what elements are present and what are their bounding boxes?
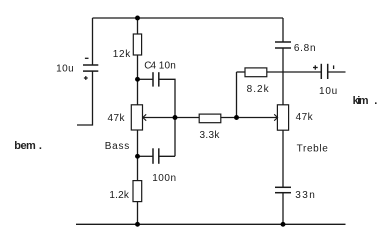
svg-text:10n: 10n <box>159 61 176 72</box>
svg-text:Treble: Treble <box>297 143 329 154</box>
svg-text:.: . <box>374 95 377 107</box>
svg-text:kim: kim <box>353 95 369 107</box>
svg-text:6.8n: 6.8n <box>294 43 316 54</box>
svg-text:47k: 47k <box>296 112 314 123</box>
svg-text:33n: 33n <box>295 190 315 201</box>
svg-text:Bass: Bass <box>105 141 130 152</box>
svg-text:3.3k: 3.3k <box>200 130 221 141</box>
svg-text:bem: bem <box>14 140 36 152</box>
svg-text:.: . <box>39 140 42 152</box>
svg-text:1.2k: 1.2k <box>109 190 129 201</box>
svg-text:C4: C4 <box>144 61 156 72</box>
svg-text:10u: 10u <box>56 63 74 74</box>
svg-text:8.2k: 8.2k <box>247 84 270 95</box>
svg-text:12k: 12k <box>113 49 132 60</box>
svg-text:10u: 10u <box>319 86 337 97</box>
svg-text:100n: 100n <box>152 173 176 184</box>
svg-text:47k: 47k <box>108 113 126 124</box>
